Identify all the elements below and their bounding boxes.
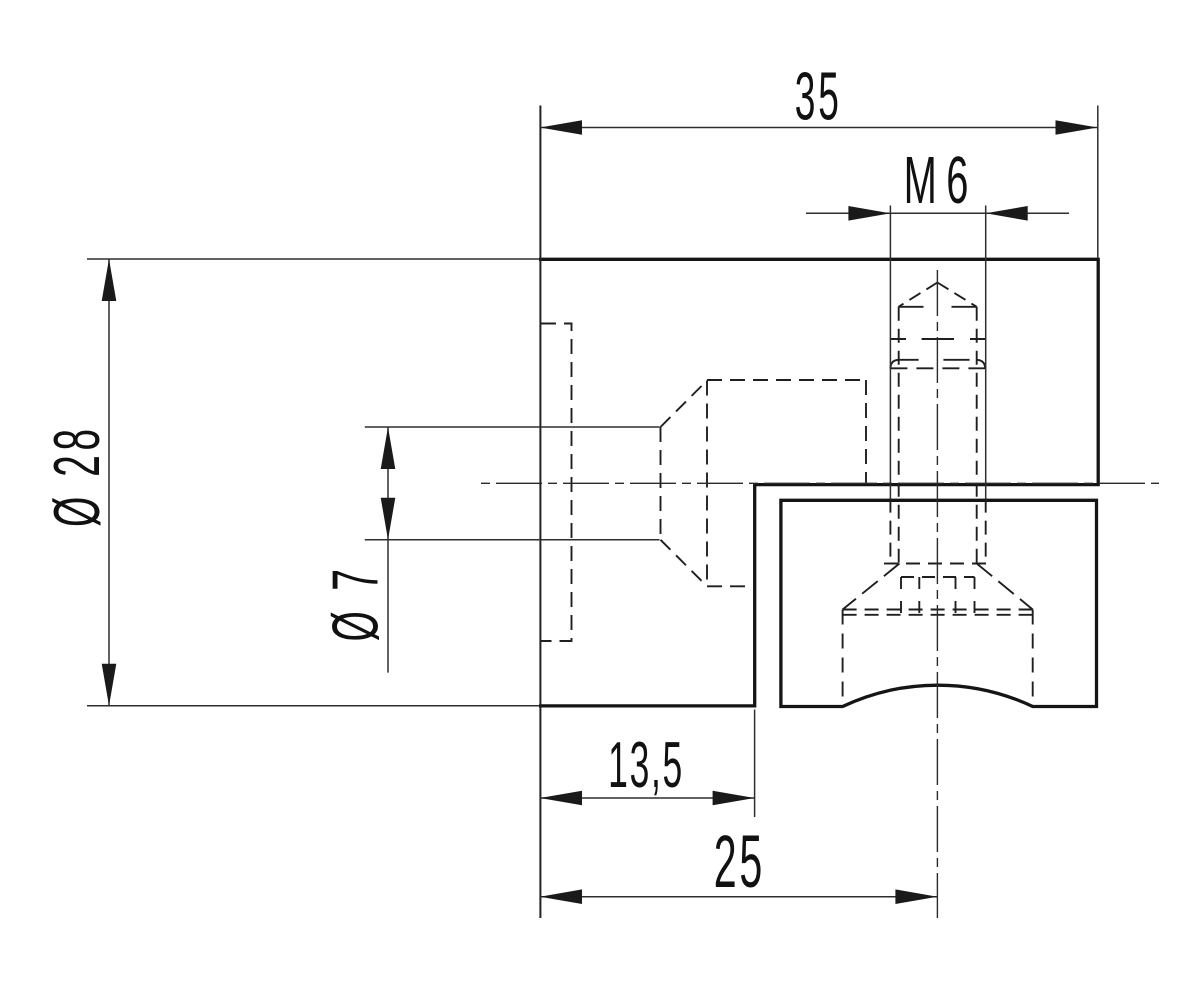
hidden thread core left xyxy=(898,307,900,564)
part outline: clamping insert with saddle arc xyxy=(781,500,1097,706)
hidden cone flank left xyxy=(843,564,900,610)
extension line for 13,5 xyxy=(754,710,756,818)
hidden hex socket inner right xyxy=(955,577,957,613)
hidden thread depth end xyxy=(890,338,985,340)
hidden counterbore top line xyxy=(707,379,866,381)
arrowhead 13,5 right xyxy=(713,791,755,806)
dimension line 13,5 xyxy=(540,797,755,799)
hidden counterbore wall right in insert xyxy=(1032,610,1034,702)
dimension line 25 xyxy=(540,896,937,898)
hidden drill point cone of M6 tap hole xyxy=(899,283,938,307)
hidden counterbore end wall xyxy=(865,380,867,483)
arrowhead Ø7 bottom xyxy=(381,498,396,540)
centerline horizontal axis xyxy=(481,482,1159,484)
hidden recess on left face xyxy=(541,324,572,642)
hidden drill hole shoulder xyxy=(899,306,977,308)
extension line M6 right xyxy=(985,206,987,499)
arrowhead 25 left xyxy=(540,889,582,904)
svg-text:6: 6 xyxy=(946,142,968,217)
hidden set screw major diameter right xyxy=(985,499,987,564)
svg-text:M: M xyxy=(904,142,937,217)
extension line M6 left xyxy=(889,206,891,499)
arrowhead 35 left xyxy=(540,120,582,135)
extension line right for 35 xyxy=(1097,106,1099,258)
svg-text:35: 35 xyxy=(795,59,842,135)
dimension line 35 xyxy=(540,127,1098,129)
hidden set screw major diameter left xyxy=(889,499,891,564)
hidden washer bottom line xyxy=(843,614,1033,616)
arrowhead 13,5 left xyxy=(540,791,582,806)
part outline: adapter body (L-shaped section) xyxy=(539,259,1098,706)
dimension line Ø28 xyxy=(108,259,110,706)
hidden washer top line xyxy=(843,609,1033,611)
arrowhead M6 left xyxy=(848,206,890,221)
hidden thread core right xyxy=(976,307,978,564)
hidden set screw chamfer line xyxy=(890,367,985,369)
extension line Ø7 top xyxy=(365,426,660,428)
hidden counterbore start wall xyxy=(706,381,708,587)
dimension line M6 xyxy=(806,212,1069,214)
extension line left (x=540) xyxy=(539,106,541,919)
hidden hex socket inner left xyxy=(918,577,920,613)
hidden counterbore wall left in insert xyxy=(842,610,844,702)
arrowhead 25 right xyxy=(895,889,937,904)
hidden hex socket right wall xyxy=(974,577,976,613)
extension line top for Ø28 xyxy=(87,258,539,260)
hidden hex socket top xyxy=(901,576,975,578)
hidden counterbore bottom line xyxy=(707,585,753,587)
arrowhead Ø7 top xyxy=(381,427,396,469)
extension line Ø7 bottom xyxy=(365,539,660,541)
svg-text:Ø 28: Ø 28 xyxy=(41,424,114,527)
hidden hex socket left wall xyxy=(900,577,902,613)
svg-text:25: 25 xyxy=(714,820,765,903)
arrowhead M6 right xyxy=(986,206,1028,221)
extension line bottom for Ø28 xyxy=(87,705,539,707)
arrowhead Ø28 top xyxy=(102,259,117,301)
dimension line Ø7 xyxy=(387,427,389,673)
arrowhead Ø28 bottom xyxy=(102,664,117,706)
svg-text:Ø 7: Ø 7 xyxy=(319,564,392,641)
hidden cone seat shoulder xyxy=(884,563,992,565)
hidden cone flank right xyxy=(977,564,1033,610)
svg-text:13,5: 13,5 xyxy=(608,730,684,802)
arrowhead 35 right xyxy=(1056,120,1098,135)
hidden set screw end face with corner radii xyxy=(890,360,985,369)
centerline vertical screw axis xyxy=(936,270,938,918)
hidden bore Ø7 end wall xyxy=(660,427,662,540)
hidden countersink cone upper flank xyxy=(661,381,708,428)
hidden countersink cone lower flank xyxy=(661,540,708,587)
